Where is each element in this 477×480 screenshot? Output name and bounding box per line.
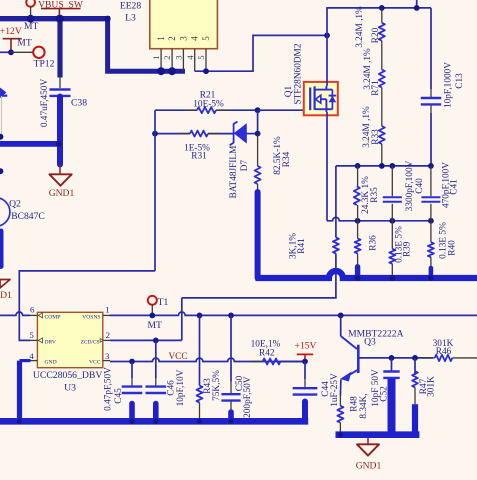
label U3 — [64, 382, 76, 393]
svg-text:C41: C41 — [450, 179, 460, 195]
label D1 — [0, 290, 12, 301]
pin name VOSNS — [82, 314, 100, 320]
junction R21/R31 left column — [152, 131, 158, 137]
lead R39 bottom — [391, 264, 393, 278]
resistor R21 — [197, 107, 216, 113]
svg-text:5: 5 — [201, 36, 211, 41]
svg-text:STF28N60DM2: STF28N60DM2 — [294, 43, 304, 104]
svg-text:5: 5 — [29, 330, 34, 340]
diode D7 BAT48JFILM — [230, 122, 258, 146]
svg-text:6: 6 — [30, 305, 35, 315]
svg-text:5: 5 — [196, 55, 206, 60]
wire Q3 base row — [360, 357, 434, 359]
junction row166 R35 — [355, 163, 361, 169]
resistor R46 — [435, 355, 453, 361]
junction bus R40 — [428, 275, 434, 281]
svg-text:VOSNS: VOSNS — [82, 314, 100, 320]
capacitor C38 — [50, 90, 71, 96]
label R71 — [371, 80, 381, 96]
transformer pin stubs 1-5 — [161, 49, 206, 71]
junction row221 R40 — [428, 218, 434, 224]
wire VCC row with hops — [110, 358, 305, 361]
junction C38 / mid bus — [56, 141, 62, 147]
lead R20 top — [381, 8, 383, 23]
wire faint vertical left edge — [1, 96, 3, 134]
label R42 value — [251, 340, 281, 350]
label C46 value — [176, 369, 186, 406]
resistor R41 — [333, 238, 339, 254]
svg-text:4: 4 — [190, 36, 200, 41]
net label VCC — [168, 352, 187, 362]
wire VOSNS row y315 with hop — [110, 312, 477, 315]
IC U3 body — [37, 312, 102, 367]
svg-text:VCC: VCC — [89, 359, 101, 365]
svg-text:2: 2 — [162, 55, 172, 59]
svg-text:8.34K,: 8.34K, — [359, 393, 369, 418]
transformer pin numbers (outside) — [151, 55, 206, 60]
svg-text:1: 1 — [156, 36, 166, 41]
resistor R39 — [389, 249, 395, 264]
pin number 5 — [29, 330, 34, 340]
node left edge B — [0, 168, 3, 174]
svg-text:ZCD/CS: ZCD/CS — [81, 339, 100, 345]
wire lower GND bus (thick) — [0, 418, 308, 425]
label R39 value — [395, 226, 405, 263]
label C52 value — [371, 369, 381, 407]
junction C45 top — [129, 359, 135, 365]
resistor R43 — [197, 386, 203, 403]
lead R35 bottom — [357, 205, 359, 221]
svg-text:1uF-25V: 1uF-25V — [330, 373, 340, 407]
wire R21 row — [155, 109, 258, 111]
label R48 — [350, 396, 360, 412]
label R47 value — [427, 376, 437, 397]
label R43 — [203, 378, 213, 394]
wire row ZCD-divider y166 — [336, 165, 431, 167]
junction row221 R39 — [389, 218, 395, 224]
label C50 — [235, 375, 245, 391]
label R46 value — [433, 339, 454, 349]
resistor R42 — [263, 359, 281, 365]
label R33 value — [362, 106, 372, 148]
svg-text:D7: D7 — [240, 160, 250, 172]
lead C46 top — [155, 340, 157, 385]
pin number 3 — [105, 351, 110, 361]
wire gate node to D7 anode — [257, 110, 259, 133]
label L3 — [125, 12, 136, 23]
label C50 value — [243, 376, 253, 422]
svg-text:3: 3 — [105, 351, 110, 361]
capacitor C45 — [122, 387, 143, 393]
wire C45 to bus (thick) — [129, 404, 135, 422]
label D7 value — [229, 146, 239, 199]
label R43 value — [212, 370, 222, 401]
svg-text:3: 3 — [174, 55, 184, 60]
lead R47 bottom — [414, 387, 416, 404]
label R34 — [282, 151, 292, 167]
label Q1 — [284, 85, 294, 97]
svg-text:3300pF,100V: 3300pF,100V — [405, 160, 415, 211]
lead R48 top — [339, 396, 341, 406]
svg-text:L3: L3 — [125, 12, 136, 23]
wire R42 to +15V — [280, 361, 305, 363]
junction R43 top — [197, 313, 203, 319]
svg-text:0.47pF,50V: 0.47pF,50V — [104, 367, 114, 411]
power port +12V — [0, 26, 22, 52]
junction transformer pin1 — [157, 67, 165, 75]
svg-text:R40: R40 — [447, 240, 457, 256]
svg-text:C46: C46 — [167, 380, 177, 396]
svg-text:BAT48JFILM: BAT48JFILM — [229, 146, 239, 199]
wire gate column to DRV — [19, 271, 155, 341]
svg-text:3: 3 — [178, 36, 188, 41]
resistor R71 — [379, 70, 385, 88]
svg-text:R46: R46 — [436, 347, 452, 357]
svg-text:C13: C13 — [455, 73, 465, 89]
resistor R36 — [355, 238, 361, 253]
label Q2 value BC847C — [11, 211, 45, 222]
junction bus R39 — [389, 275, 395, 281]
label U3 value UCC28056_DBV — [33, 370, 102, 381]
lead R35 top — [357, 166, 359, 186]
diode (edge fragment) blue triangle — [0, 88, 7, 99]
wire Q2 emitter (thick edge) — [0, 231, 4, 267]
node left edge A — [0, 134, 3, 140]
capacitor C46 — [146, 387, 167, 393]
wire COMP net left with hop — [0, 312, 30, 315]
svg-text:Q3: Q3 — [364, 337, 376, 348]
junction R20 top — [379, 5, 385, 11]
wire C44 top — [304, 362, 306, 388]
resistor R40 — [428, 242, 434, 257]
svg-text:Q2: Q2 — [9, 198, 21, 209]
wire R47 to bus (thick) — [412, 404, 418, 436]
label R47 — [419, 378, 429, 394]
wire stub to top edge — [416, 0, 418, 8]
wire top VBUS bus (thick) — [0, 16, 110, 21]
wire +12V stub — [0, 51, 11, 53]
wire transformer pins4-5 to Q1 drain net — [195, 35, 327, 71]
wire source row y221 with hop — [327, 217, 431, 220]
resistor R35 — [354, 186, 360, 205]
wire C38 bottom (thick) — [57, 97, 63, 165]
junction VBUS_SW power stem — [56, 15, 64, 23]
lead R36 bottom — [357, 254, 359, 267]
testpoint VBUS_SW circle — [26, 0, 35, 17]
label C45 — [114, 388, 124, 404]
svg-text:R41: R41 — [297, 238, 307, 254]
wire gate-drive column — [154, 110, 156, 271]
wire R36 to bus (thick) — [355, 267, 360, 278]
lead R71-R33 — [381, 88, 383, 127]
svg-text:R35: R35 — [370, 187, 380, 203]
svg-text:VCC: VCC — [168, 352, 187, 362]
wire ZCD row — [110, 339, 182, 341]
IC U3 pin arrows — [38, 313, 103, 343]
svg-text:GND1: GND1 — [49, 188, 75, 199]
wire stub left edge y96 — [0, 95, 7, 97]
svg-text:UCC28056_DBV: UCC28056_DBV — [33, 370, 102, 381]
wire sense bus (thick, hop at R41) — [256, 271, 477, 278]
lead R42 right — [280, 361, 292, 363]
label C41 — [450, 179, 460, 195]
svg-text:EE28: EE28 — [120, 0, 142, 11]
junction bus R43 — [197, 419, 202, 424]
junction Q3 collector — [338, 313, 344, 319]
svg-text:+15V: +15V — [295, 341, 317, 352]
svg-text:R71: R71 — [371, 80, 381, 96]
svg-text:3.24M ,1%: 3.24M ,1% — [355, 6, 365, 48]
svg-text:10pF,10V: 10pF,10V — [176, 369, 186, 406]
label C45 value — [104, 367, 114, 411]
pin number 1 — [105, 305, 109, 315]
label C46 — [167, 380, 177, 396]
transformer L3 body — [150, 0, 218, 49]
pin number 6 — [30, 305, 35, 315]
label Q3 — [364, 337, 376, 348]
svg-text:R20: R20 — [371, 27, 381, 43]
wire mid bus to C38 (thick) — [0, 141, 60, 147]
label R34 value — [273, 136, 283, 175]
junction top stub — [414, 5, 420, 11]
junction C38 top bus — [56, 15, 64, 23]
label C38 value — [40, 79, 50, 128]
wire R41 bottom to ZCD tap — [182, 254, 336, 298]
label R20 — [371, 27, 381, 43]
lead C38 top — [59, 77, 61, 88]
svg-text:MT: MT — [148, 320, 163, 331]
wire C13 bottom to row — [430, 113, 432, 166]
label C44 — [321, 381, 331, 397]
junction +15V / C44 — [302, 359, 308, 365]
label MT lower — [17, 37, 32, 48]
lead R39 top — [391, 221, 393, 249]
label R40 value — [438, 222, 448, 259]
pin number 4 — [29, 351, 34, 361]
label T1 — [158, 297, 169, 308]
svg-text:GND1: GND1 — [356, 461, 382, 472]
label R21 — [200, 90, 216, 100]
label MT (T1) — [148, 320, 163, 331]
label R39 — [403, 241, 413, 257]
svg-text:10pF,1000V: 10pF,1000V — [444, 62, 454, 108]
label Q3 value MMBT2222A — [348, 329, 404, 340]
lead R31 right — [208, 133, 220, 135]
svg-text:1: 1 — [105, 305, 109, 315]
wire R43 column — [199, 315, 201, 385]
label R36 — [369, 235, 379, 251]
wire C13 top — [430, 8, 432, 89]
svg-text:R31: R31 — [191, 152, 207, 162]
capacitor C40 — [383, 197, 402, 202]
junction row221 R36 — [355, 218, 361, 224]
svg-text:R42: R42 — [259, 348, 275, 358]
svg-text:2: 2 — [106, 330, 110, 340]
ground GND1 (Q3) — [356, 438, 382, 472]
junction R47 top — [412, 355, 418, 361]
junction bus C46 — [153, 419, 158, 424]
lead C50 top — [230, 381, 232, 393]
junction bus U3 GND — [17, 419, 22, 424]
svg-text:U3: U3 — [64, 382, 76, 393]
testpoint T1 circle — [148, 296, 157, 316]
svg-text:C38: C38 — [71, 98, 87, 109]
label R21 value — [193, 99, 224, 109]
label Q1 value STF28N60DM2 — [294, 43, 304, 104]
power port +15V — [295, 341, 317, 362]
junction bus R36 — [355, 275, 361, 281]
svg-text:C40: C40 — [415, 178, 425, 194]
label C41 value — [442, 162, 452, 208]
junction bus C45 — [129, 419, 134, 424]
transistor Q1 body — [304, 82, 338, 115]
capacitor C52 — [383, 372, 399, 378]
transformer pin numbers (inside) — [156, 36, 211, 41]
svg-text:4: 4 — [185, 55, 195, 60]
wire R47 column — [414, 358, 416, 375]
label R31 — [191, 152, 207, 162]
wire C46 to bus (thick) — [153, 404, 159, 422]
label R48 value — [359, 393, 369, 418]
lead R20-R71 — [381, 41, 383, 70]
wire C44 to bus (thick) — [302, 402, 308, 422]
label R20 value — [355, 6, 365, 48]
svg-text:T1: T1 — [158, 297, 169, 308]
wire C52 column — [391, 358, 393, 371]
pin name ZCD/CS — [81, 339, 100, 345]
svg-text:1: 1 — [151, 55, 161, 59]
lead R48 bottom — [339, 423, 341, 435]
label R41 value — [288, 233, 298, 259]
lead R34 top — [257, 134, 259, 166]
label C40 value — [405, 160, 415, 211]
wire bus to transformer pin1-3 (thick L) — [108, 19, 185, 71]
lead R33 bottom — [381, 144, 383, 166]
junction C52 top — [389, 355, 395, 361]
lead R46 right — [452, 357, 477, 359]
svg-text:R33: R33 — [371, 129, 381, 145]
junction C50 top — [228, 313, 234, 319]
label C44 value — [330, 373, 340, 407]
junction C46 top — [153, 338, 159, 344]
capacitor C41 — [421, 197, 440, 202]
capacitor C50 — [221, 394, 240, 400]
label C13 — [455, 73, 465, 89]
label R46 — [436, 347, 452, 357]
junction VBUS testpoint — [27, 15, 35, 23]
wire Q3 emitter down — [339, 380, 342, 396]
svg-text:R39: R39 — [403, 241, 413, 257]
svg-text:75K,5%: 75K,5% — [212, 370, 222, 401]
label EE28 — [120, 0, 142, 11]
junction gate node — [255, 107, 261, 113]
resistor R20 — [379, 23, 385, 41]
label R40 — [447, 240, 457, 256]
pin number 2 — [106, 330, 110, 340]
svg-text:D1: D1 — [0, 290, 12, 301]
wire C38 top (thick) — [57, 19, 62, 78]
lead R43 bottom — [199, 403, 201, 422]
svg-text:2200pF,50V: 2200pF,50V — [243, 376, 253, 422]
junction +12V — [8, 49, 14, 55]
ground GND1 (C38) — [49, 165, 75, 199]
lead C50 bottom — [230, 401, 232, 412]
wire R40 to bus (thick) — [429, 268, 434, 278]
label R33 — [371, 129, 381, 145]
lead R21 left — [186, 109, 198, 111]
label R35 — [370, 187, 380, 203]
lead C40 top — [391, 166, 393, 196]
transistor Q2 circle — [0, 198, 10, 227]
svg-text:+12V: +12V — [0, 26, 22, 37]
label R71 value — [363, 48, 373, 90]
svg-text:C45: C45 — [114, 388, 124, 404]
svg-text:R36: R36 — [369, 235, 379, 251]
junction row166 C41 — [428, 163, 434, 169]
wire Q1 drain up and top net — [327, 8, 431, 36]
label R41 — [297, 238, 307, 254]
lead R34 bottom — [257, 184, 259, 192]
label R31 value — [184, 144, 210, 154]
junction row166 R33 — [379, 163, 385, 169]
wire C50 to bus (thick) — [228, 412, 234, 421]
wire Q1 source down — [326, 112, 328, 221]
lead R40 bottom — [430, 257, 432, 268]
wire Q3 collector — [340, 315, 342, 336]
label TP12 — [34, 59, 55, 70]
svg-text:COMP: COMP — [45, 314, 61, 320]
svg-text:BC847C: BC847C — [11, 211, 45, 222]
pin name VCC — [89, 359, 101, 365]
capacitor C44 — [293, 388, 318, 394]
lead R31 left — [179, 133, 191, 135]
wire R34 to bus (thick) — [255, 192, 261, 278]
lead C45 top — [131, 362, 133, 386]
svg-text:0.47uF,450V: 0.47uF,450V — [40, 79, 50, 128]
wire right GND bus (thick) — [336, 431, 420, 438]
label Q2 — [9, 198, 21, 209]
lead C41 top — [430, 166, 432, 196]
svg-text:MT: MT — [24, 21, 39, 32]
junction T1 — [149, 313, 155, 319]
resistor R34 — [255, 166, 261, 184]
wire TP12 lead — [11, 51, 33, 53]
transistor Q1 symbol — [310, 86, 336, 112]
resistor R48 — [337, 406, 343, 423]
capacitor C13 — [421, 98, 441, 104]
testpoint TP12 circle — [33, 47, 44, 58]
junction bus C50 — [228, 419, 233, 424]
pin name DRV — [45, 339, 56, 345]
wire C50 column — [230, 315, 232, 381]
junction row166 C40 — [389, 163, 395, 169]
label R42 — [259, 348, 275, 358]
lead C13 top — [430, 89, 432, 97]
svg-text:10E-5%: 10E-5% — [193, 99, 224, 109]
wire U3 GND pin to bus (thick) — [20, 361, 31, 419]
junction right bus R48 — [338, 432, 343, 437]
lead C41 bottom — [430, 204, 432, 221]
lead R40 top — [430, 221, 432, 242]
label C13 value — [444, 62, 454, 108]
lead C13 bottom — [430, 105, 432, 113]
junction D7 anode — [255, 131, 261, 137]
wire R31 row — [155, 133, 234, 135]
label MT upper — [24, 21, 39, 32]
svg-text:301K: 301K — [427, 376, 437, 397]
label C38 — [71, 98, 87, 109]
label D7 — [240, 160, 250, 172]
